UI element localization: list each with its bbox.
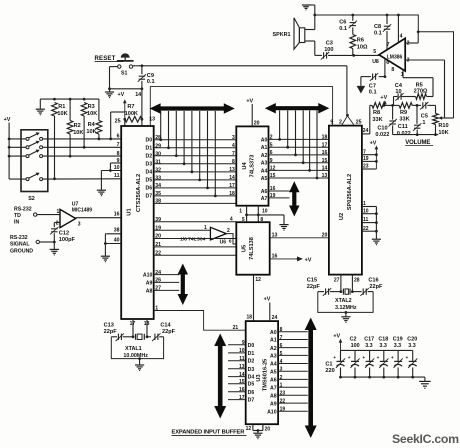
label EXPANDED INPUT BUFFER [172,430,247,436]
svg-text:1: 1 [239,208,242,214]
svg-text:D1: D1 [248,351,255,357]
svg-text:D5: D5 [248,382,255,388]
power +V R7 [118,92,127,119]
label RESET [95,56,124,62]
svg-text:A1: A1 [261,145,268,151]
wire U3 data rows [228,340,254,404]
svg-text:10: 10 [262,208,268,214]
svg-text:19: 19 [270,193,276,199]
svg-text:22pF: 22pF [162,329,176,335]
svg-text:0.022: 0.022 [375,132,389,138]
svg-text:7: 7 [117,142,120,148]
svg-text:A5: A5 [261,176,268,182]
svg-text:+V: +V [370,141,377,147]
svg-text:5: 5 [373,49,376,55]
svg-text:A10: A10 [143,273,153,279]
resistor R5 [414,83,428,100]
IC U4 74LS373 [236,126,268,205]
svg-text:0.1: 0.1 [147,79,155,85]
wire pin3 [405,60,444,118]
svg-text:11: 11 [239,356,245,362]
wire U1 xtal pins [130,319,150,338]
ground XTAL2 [341,311,350,322]
svg-text:C3: C3 [326,41,333,47]
switch S2 row4 [9,173,121,181]
svg-text:D4: D4 [248,375,255,381]
svg-text:A2: A2 [261,153,268,159]
svg-text:U1: U1 [127,208,133,216]
svg-text:+V: +V [264,296,271,302]
svg-text:100: 100 [324,47,333,53]
svg-text:15: 15 [322,158,328,164]
svg-text:R3: R3 [88,104,95,110]
wire U4 bottom pins to U5 [239,206,284,225]
svg-text:1: 1 [422,120,425,126]
wire S1 left leg [108,67,118,91]
svg-text:8: 8 [117,151,120,157]
label U4 left pin numbers [229,135,235,197]
wire row 22 [154,254,237,256]
svg-text:C13: C13 [104,323,114,329]
svg-text:C12: C12 [59,230,69,236]
svg-text:22pF: 22pF [104,329,118,335]
wire U5 pin12 to U3 pin18 [246,275,261,321]
wire U2 ground pins [362,201,378,239]
label RS-232 TD IN [14,207,32,226]
svg-text:R2: R2 [74,123,81,129]
wire rows A6 A7 [261,186,290,202]
power +V U4 pin20 [246,99,259,127]
svg-text:EXPANDED INPUT BUFFER: EXPANDED INPUT BUFFER [172,430,246,436]
svg-text:9: 9 [270,158,273,164]
svg-text:3: 3 [78,221,81,227]
power +V U3 [264,296,278,321]
svg-text:1/6 74LS04: 1/6 74LS04 [180,236,206,242]
capacitor C4 [394,83,416,105]
switch S2 row2 [9,141,121,149]
svg-text:R7: R7 [127,104,134,110]
wire U2 xtal pins [334,275,360,293]
svg-text:+V: +V [4,117,11,123]
svg-text:32: 32 [155,167,161,173]
svg-text:0.1: 0.1 [369,90,377,96]
svg-text:U2: U2 [339,213,345,220]
wire pin2 feedback [405,30,419,43]
svg-text:U4: U4 [242,162,248,170]
svg-text:C9: C9 [147,73,154,79]
svg-text:19: 19 [280,407,286,413]
svg-text:A8: A8 [146,288,153,294]
wire U5 pin16 to +V [270,254,312,264]
svg-text:13: 13 [239,364,245,370]
label pin14 [135,92,141,98]
svg-text:11: 11 [114,173,120,179]
resistor R1 [52,103,68,181]
capacitor C5 [420,102,428,126]
svg-text:A4: A4 [261,168,268,174]
svg-text:6: 6 [229,239,232,245]
svg-text:22pF: 22pF [307,284,321,290]
svg-text:3.3: 3.3 [408,343,416,349]
svg-text:16: 16 [114,211,120,217]
capacitor C3 [315,41,354,60]
svg-text:20: 20 [322,232,328,238]
svg-text:2: 2 [280,375,283,381]
capacitor C20 [406,337,418,379]
wire U2 pin24 audio out [362,105,370,134]
svg-text:33: 33 [155,175,161,181]
svg-text:3: 3 [407,58,410,64]
svg-text:D3: D3 [146,162,153,168]
svg-text:TD: TD [14,213,21,219]
wire U3 ground pins [246,424,271,433]
svg-text:3: 3 [280,367,283,373]
wire inverter out to U5 [226,234,236,245]
svg-text:A6: A6 [261,189,268,195]
svg-text:31: 31 [155,159,161,165]
wire S1 to reset net [133,64,347,113]
switch S2 row1 [9,132,121,140]
wire row 39 [154,216,237,222]
pushbutton S1 [117,53,134,76]
svg-text:SPKR1: SPKR1 [273,32,291,38]
wire row 38 [154,202,237,204]
svg-text:5: 5 [270,142,273,148]
ground U2 [372,239,381,245]
capacitor C2 [348,337,360,379]
svg-text:12: 12 [246,426,252,432]
ground XTAL1 [135,357,144,370]
bus arrow expanded input [214,334,226,419]
svg-text:D7: D7 [248,398,255,404]
IC U1 CTS256A-AL2 [121,126,154,319]
wire U3 address rows [267,327,308,415]
op-amp U6 74LS04 [180,225,230,245]
svg-text:C15: C15 [307,278,317,284]
wire U7 out to pin16 [76,217,122,219]
svg-text:A0: A0 [270,330,277,336]
svg-text:10K: 10K [57,111,67,117]
svg-text:14: 14 [135,92,141,98]
svg-text:A4: A4 [270,362,277,368]
ground U3 [253,433,262,439]
bus arrow A6 A7 [289,181,300,216]
op-amp U8 LM386 [379,38,405,71]
svg-text:XTAL2: XTAL2 [335,298,352,304]
svg-text:29: 29 [155,143,161,149]
capacitor C6 [339,14,357,32]
svg-text:D0: D0 [146,138,153,144]
svg-text:C19: C19 [393,337,403,343]
svg-text:A5: A5 [270,370,277,376]
ground arrow C7 [357,86,366,94]
svg-text:2: 2 [227,228,230,234]
svg-text:C5: C5 [421,113,428,119]
svg-text:R1: R1 [58,104,65,110]
label SPKR1 [273,32,291,38]
wire U1 pins 38 40 [104,234,121,256]
capacitor C7 [361,73,385,95]
label C15 [307,278,321,290]
ground speaker top [302,5,315,15]
wire right rail [418,32,453,118]
svg-text:A0: A0 [261,137,268,143]
svg-text:0.022: 0.022 [397,131,411,137]
svg-text:28: 28 [354,278,360,284]
svg-text:+: + [377,356,380,361]
svg-text:A9: A9 [146,280,153,286]
wire row 21 [154,246,237,248]
svg-text:+: + [333,356,336,361]
svg-text:C2: C2 [350,337,357,343]
ground C12 [50,242,59,255]
label U1 right pin numbers [155,135,161,312]
svg-text:74LS138: 74LS138 [249,237,255,260]
svg-text:SIGNAL: SIGNAL [10,242,30,248]
capacitor C10 [375,105,396,138]
svg-text:8: 8 [232,159,235,165]
svg-text:D6: D6 [248,390,255,396]
svg-text:8: 8 [391,67,394,73]
watermark SeekIC.com [392,432,459,446]
wire rows A10 A9 A8 [143,273,179,295]
svg-text:7: 7 [363,149,366,155]
svg-text:3: 3 [232,135,235,141]
svg-text:10K: 10K [438,130,448,136]
svg-text:15: 15 [270,173,276,179]
svg-text:A3: A3 [261,161,268,167]
svg-text:A10: A10 [267,409,277,415]
bus arrow data [150,103,235,114]
svg-text:100pF: 100pF [59,237,76,243]
svg-text:18: 18 [144,321,150,327]
svg-text:100: 100 [351,343,360,349]
svg-text:6: 6 [270,150,273,156]
svg-text:19: 19 [363,156,369,162]
wire filter bottom rail [393,134,439,136]
svg-text:D0: D0 [248,343,255,349]
svg-text:15: 15 [239,379,245,385]
svg-text:220: 220 [325,368,334,374]
svg-text:RESET: RESET [95,56,116,62]
svg-text:23: 23 [363,164,369,170]
svg-text:13: 13 [272,232,278,238]
wire pin6 [384,58,387,78]
wire U1 pin1 to U3 pin21 [154,311,246,331]
svg-text:18: 18 [322,135,328,141]
svg-text:A2: A2 [270,346,277,352]
wire pin4 [397,14,400,43]
ground S1 [105,89,114,98]
svg-text:16: 16 [239,387,245,393]
svg-text:6: 6 [117,134,120,140]
svg-text:22pF: 22pF [369,284,383,290]
svg-text:7: 7 [387,42,390,48]
svg-text:4: 4 [230,216,233,222]
svg-text:C20: C20 [407,337,417,343]
wire U1 pins 9 10 jumper [101,163,121,190]
svg-text:13: 13 [149,116,155,122]
svg-text:3.3: 3.3 [365,343,373,349]
svg-text:R10: R10 [438,123,448,129]
svg-text:22: 22 [363,226,369,232]
svg-text:2: 2 [270,135,273,141]
label VOLUME [405,140,433,146]
svg-text:10.00MHz: 10.00MHz [123,353,148,359]
svg-text:6: 6 [386,60,389,66]
svg-text:13: 13 [322,173,328,179]
label pin25 [115,119,125,126]
capacitor C1 [325,350,345,378]
node signal ground [36,240,54,243]
svg-text:10K: 10K [86,129,96,135]
svg-text:+: + [362,356,365,361]
ground pins 9 10 [97,190,106,196]
svg-text:14: 14 [229,175,235,181]
bus arrow address [265,103,330,114]
svg-text:4: 4 [400,33,403,39]
capacitor C11 [397,105,422,137]
svg-text:XTAL1: XTAL1 [125,346,142,352]
resistor R9 [399,103,412,123]
wire row 20 [154,238,237,240]
op-amp U7 MIC1489 [56,202,93,228]
resistor R10 volume pot [433,105,454,136]
svg-text:RS-232: RS-232 [10,235,28,241]
svg-text:D1: D1 [146,146,153,152]
svg-text:12: 12 [270,166,276,172]
svg-text:10: 10 [395,89,401,95]
resistor R2 [67,99,83,157]
svg-text:27: 27 [334,278,340,284]
svg-text:C10: C10 [377,125,387,131]
capacitor C9 [138,66,155,126]
svg-text:2: 2 [56,220,59,226]
crystal XTAL1 [111,333,163,359]
power +V cap bank [333,333,342,350]
svg-text:TMS6016-25: TMS6016-25 [263,359,269,391]
svg-text:U6: U6 [220,240,227,246]
svg-text:4: 4 [280,359,283,365]
wire U2 reset pins 2 25 [330,114,361,126]
svg-text:38: 38 [114,227,120,233]
svg-text:16: 16 [322,150,328,156]
capacitor C8 [374,14,391,50]
svg-text:C1: C1 [325,361,332,367]
svg-text:SeekIC.com: SeekIC.com [392,432,459,446]
svg-text:10: 10 [363,208,369,214]
svg-text:+V: +V [246,99,253,105]
svg-text:25: 25 [115,119,121,125]
bus arrow A8-A10 [178,264,189,306]
svg-text:0.1: 0.1 [374,31,382,37]
svg-text:+: + [391,356,394,361]
power +V U2 right [362,141,378,170]
svg-text:30: 30 [155,151,161,157]
svg-text:10Ω: 10Ω [357,45,368,51]
switch S2 row3 [9,150,121,158]
wire U5 pin13 to U2 pin20 [270,232,329,238]
capacitor C17 [362,337,374,379]
svg-text:A9: A9 [270,401,277,407]
svg-text:1: 1 [280,383,283,389]
svg-text:R6: R6 [357,38,364,44]
wire data bus rows D0-D7 [154,111,237,197]
svg-text:GROUND: GROUND [10,248,33,254]
wire address rows A0-A5 [261,110,329,181]
svg-text:C16: C16 [368,278,378,284]
svg-text:3.3: 3.3 [379,343,387,349]
svg-text:11: 11 [363,217,369,223]
label C16 [368,278,383,290]
wire audio filter row [370,104,436,107]
wire pullup rail [40,98,99,101]
svg-text:D3: D3 [248,367,255,373]
svg-text:U8: U8 [372,59,379,65]
label C13 [104,323,118,335]
resistor R8 [372,103,385,123]
resistor R3 [81,103,97,149]
svg-text:A1: A1 [270,338,277,344]
svg-text:MIC1489: MIC1489 [72,207,93,213]
svg-text:74LS373: 74LS373 [250,155,256,178]
svg-text:5: 5 [280,351,283,357]
wire pin13 column [149,87,332,126]
wire top rail to amp [315,15,419,32]
svg-text:+: + [406,356,409,361]
svg-text:10K: 10K [73,130,83,136]
svg-text:S1: S1 [121,70,127,76]
power +V S2 [4,117,11,179]
svg-text:A6: A6 [270,378,277,384]
svg-text:+V: +V [118,92,125,98]
svg-text:+V: +V [380,95,387,101]
svg-text:A8: A8 [270,394,277,400]
svg-text:23: 23 [280,391,286,397]
svg-text:SP0256A-AL2: SP0256A-AL2 [347,174,353,210]
capacitor C19 [391,337,403,379]
svg-text:3.3: 3.3 [394,343,402,349]
capacitor C18 [377,337,389,379]
IC U5 74LS138 [236,222,269,275]
crystal XTAL2 [318,288,373,312]
svg-text:14: 14 [322,166,328,172]
svg-text:C14: C14 [160,323,171,329]
svg-text:RS-232: RS-232 [14,207,32,213]
ground cap bank [419,381,431,388]
svg-text:9: 9 [242,340,245,346]
svg-text:22: 22 [280,399,286,405]
resistor R4 [86,99,101,140]
svg-text:R8: R8 [373,110,380,116]
switch S2 box [21,130,48,202]
svg-text:D5: D5 [146,178,153,184]
svg-text:C18: C18 [378,337,388,343]
svg-text:A7: A7 [261,196,268,202]
label C14 [160,323,175,335]
svg-text:1: 1 [57,209,60,215]
svg-text:20: 20 [254,121,260,127]
svg-text:16: 16 [272,254,278,260]
svg-text:17: 17 [229,183,235,189]
svg-text:2: 2 [339,119,342,125]
svg-text:8: 8 [280,327,283,333]
svg-text:10: 10 [239,348,245,354]
svg-text:7: 7 [232,151,235,157]
label U1 left pins [114,134,120,244]
svg-text:+: + [348,356,351,361]
ground pins 38 40 [101,256,110,262]
